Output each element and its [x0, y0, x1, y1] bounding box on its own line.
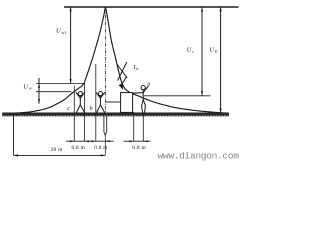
- electrode centre extension to 20m line: [104, 135, 106, 155]
- PE conductor from electrode centre line to box: [105, 101, 120, 103]
- centre line (dash-dot) of electrode: [104, 8, 106, 113]
- dimension U_E (vertical at x=220.6): [220, 7, 222, 113]
- leader line 2 (lower, to curve): [36, 91, 71, 93]
- svg-text:k: k: [136, 66, 139, 71]
- svg-text:a: a: [147, 82, 150, 88]
- extension line 20 m point: [13, 116, 15, 155]
- svg-text:w: w: [29, 86, 32, 91]
- ground surface (hatched soil band): [2, 113, 229, 116]
- dimension U_w (vertical at x=39): [38, 78, 40, 104]
- potential distribution curve: [14, 7, 226, 113]
- svg-text:w1: w1: [61, 30, 66, 35]
- extension line person a feet: [142, 113, 144, 142]
- svg-text:0.8 m: 0.8 m: [132, 145, 146, 151]
- leader line 1 (upper, to curve): [36, 82, 83, 84]
- extension line c left foot: [73, 86, 75, 142]
- 20 m dimension line: [14, 154, 106, 156]
- extension line c right foot: [84, 83, 86, 141]
- earth electrode rod below ground: [104, 116, 107, 135]
- extension line box edge: [133, 112, 135, 141]
- equipment box: [121, 93, 133, 113]
- svg-text:c: c: [192, 49, 194, 54]
- fault (lightning) arrow onto box: [117, 62, 127, 90]
- svg-text:www.diangon.com: www.diangon.com: [158, 150, 240, 161]
- svg-text:b: b: [90, 106, 93, 112]
- person b: [96, 92, 105, 113]
- svg-text:20 m: 20 m: [51, 147, 63, 153]
- person a (touching box): [133, 86, 148, 113]
- svg-text:c: c: [67, 106, 70, 112]
- dimension U_c (vertical at x=202): [201, 7, 203, 96]
- top max-potential line: [64, 6, 239, 8]
- extension line b left foot: [95, 64, 97, 141]
- svg-text:0.8 m: 0.8 m: [72, 145, 86, 151]
- svg-text:E: E: [215, 49, 218, 54]
- leader line 3 (touch potential level): [144, 95, 211, 97]
- dimension U_w1 (vertical at x=70.6 from top line to leader): [70, 7, 72, 83]
- 0.8m dimension line (person a): [124, 140, 151, 142]
- 0.8m dimension line (left pair): [66, 140, 114, 142]
- svg-text:0.8 m: 0.8 m: [94, 145, 108, 151]
- person c: [76, 92, 85, 113]
